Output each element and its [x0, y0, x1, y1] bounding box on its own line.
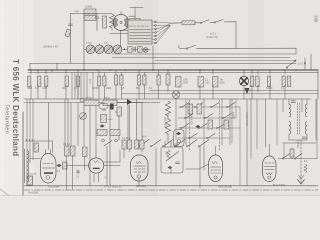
switch lever [294, 154, 302, 160]
wire [179, 46, 180, 49]
tube EM11 magic eye [113, 12, 129, 31]
IF transformer Tr2 coil b [289, 122, 291, 135]
wire bus G [150, 90, 318, 92]
resistor R31 [135, 140, 139, 149]
resistor R26 [65, 146, 70, 156]
coil L4 small [304, 165, 307, 173]
resistor R28 [83, 147, 88, 157]
wire [170, 22, 182, 24]
wire column [246, 99, 248, 186]
capacitor block C20 [99, 104, 108, 110]
wire feeds [49, 99, 266, 188]
network box N1 [161, 147, 183, 173]
resistor R36 [101, 115, 114, 123]
wire [176, 99, 230, 145]
wire [109, 106, 111, 141]
wire [134, 8, 136, 21]
wire bus H [122, 93, 318, 95]
resistor R7 [138, 47, 142, 53]
resistor R2 [103, 16, 107, 28]
switch shaft dashed 2 [219, 100, 221, 150]
wire [129, 15, 135, 17]
wire [132, 102, 143, 104]
resistor R33 [208, 120, 213, 129]
connector K3 [196, 125, 201, 128]
node dots on bus [30, 69, 297, 71]
wire [127, 105, 129, 140]
wire [283, 143, 285, 159]
resistor R38 [110, 130, 120, 136]
right bottom chain [292, 140, 305, 184]
scan edge bottom [0, 195, 320, 196]
variable capacitor CV4 [113, 45, 122, 54]
resistor R3 zigzag [110, 14, 115, 30]
resistor R35 small box [27, 176, 33, 185]
node [115, 139, 118, 142]
capacitor C1 [95, 14, 99, 31]
wires IF [289, 99, 307, 148]
resistor R25 [34, 143, 39, 152]
wire [167, 115, 169, 119]
wire [83, 14, 85, 70]
wire [99, 43, 101, 46]
connector K1 [57, 164, 62, 167]
resistor R34 [224, 120, 229, 129]
coil L1 [165, 101, 170, 116]
lamp LP1 [143, 48, 148, 53]
element X1 [239, 76, 248, 85]
resistor R29 [122, 140, 126, 149]
wires [124, 99, 142, 158]
wire comb [72, 72, 93, 99]
band switch cluster [178, 99, 240, 186]
wire gang row [84, 48, 150, 50]
switch lever [282, 154, 290, 160]
node circle [80, 98, 84, 102]
wire [117, 102, 127, 104]
connector K2 [100, 124, 105, 127]
coil L2 [165, 119, 170, 134]
wire IF link [283, 99, 316, 143]
capacitor C11 [302, 137, 307, 139]
core IF [298, 103, 300, 135]
resistor R24 [197, 104, 202, 114]
junction bar with arrows [25, 139, 53, 153]
lamp LP2 [172, 91, 180, 99]
tube V4 output [209, 146, 223, 182]
wire [138, 178, 140, 186]
variable capacitor CV3 [104, 45, 113, 54]
resistor bank row [28, 74, 291, 87]
node dots gang [94, 49, 125, 50]
variable capacitor CV1 [86, 45, 95, 54]
resistor R30 [128, 140, 132, 149]
wire [104, 161, 120, 163]
wire [155, 148, 157, 186]
switch row S4 [138, 140, 209, 147]
resistor R27 [71, 146, 76, 156]
switch S2 [180, 45, 296, 49]
oscillator can U2 [174, 130, 185, 147]
wire [276, 99, 278, 145]
wires [67, 156, 85, 190]
resistor R6 [128, 47, 133, 53]
diode D1 [127, 99, 132, 105]
chassis chain line [24, 189, 318, 191]
wire bus B [112, 57, 290, 59]
capacitor C10 [291, 101, 296, 103]
resistor R0 [65, 29, 71, 37]
resistor R23 [188, 104, 193, 114]
wire [70, 14, 72, 64]
wire [317, 70, 319, 99]
variable capacitor CV2 [95, 45, 104, 54]
transformer T1 taps [152, 21, 170, 44]
wire [235, 22, 237, 49]
wire bus B2 [155, 59, 296, 61]
left vertical wires [27, 70, 96, 186]
node [102, 139, 105, 142]
wire [121, 30, 128, 32]
IF transformer Tr3 coil a [305, 104, 307, 117]
switch lever [104, 141, 112, 147]
tube V5 [263, 144, 277, 182]
wire bus A [112, 53, 296, 55]
resistor R37 [97, 130, 107, 136]
wire [304, 58, 306, 70]
wire [104, 165, 120, 167]
resistor R1 [84, 5, 96, 15]
wire [250, 99, 252, 159]
node [304, 63, 305, 64]
resistor R22 [117, 107, 122, 116]
resistor R32 [290, 149, 294, 157]
capacitor C21 solid [110, 104, 114, 110]
diode D2 [245, 88, 250, 94]
transformer T1 [128, 20, 152, 44]
wire column [231, 99, 233, 143]
capacitor C0 [68, 24, 72, 26]
wire [256, 99, 258, 149]
IF transformer Tr2 coil a [289, 104, 291, 117]
resistor R25b [63, 162, 68, 169]
resistor R1b [84, 16, 96, 21]
main supply bus [28, 69, 318, 71]
wire [110, 33, 128, 35]
resistor R20 [84, 97, 99, 106]
wire [119, 150, 121, 162]
resistor R31b [140, 140, 144, 149]
wire bus D short [56, 63, 58, 70]
wires bank to bus [31, 70, 285, 99]
wire [129, 18, 140, 20]
tube V1 EBF11 [41, 150, 57, 184]
margin rule [22, 112, 24, 196]
coil L3 [25, 149, 41, 183]
return bus [28, 71, 318, 73]
wire [167, 134, 169, 143]
wire [295, 48, 297, 54]
wire [310, 54, 312, 70]
bottom rail [24, 185, 318, 187]
labels under resistor bank [27, 80, 285, 93]
resistor R4 [182, 21, 195, 25]
wire bus F [24, 102, 160, 104]
wire [118, 116, 120, 140]
wire [29, 63, 31, 70]
wire [316, 99, 318, 159]
resistor R21 [103, 97, 117, 106]
wire [120, 31, 122, 47]
potentiometer P1 [80, 113, 87, 120]
switch S3 [286, 60, 296, 68]
wire bus E [24, 98, 311, 100]
capacitor C2 [134, 47, 136, 52]
capacitor C12 [77, 170, 80, 174]
IF transformer Tr3 coil b [305, 122, 307, 135]
wire bus C [30, 62, 296, 64]
tube V3 ECH11 [131, 155, 149, 181]
wire [139, 19, 141, 21]
wire bus R [278, 158, 317, 160]
tube V2 rectifier [89, 158, 104, 182]
switch S1 [195, 20, 236, 24]
wire [152, 46, 154, 70]
wire [130, 7, 143, 9]
switch shaft dashed [189, 100, 191, 150]
corner crease [0, 189, 9, 196]
wire [67, 165, 89, 167]
wire top feed [71, 13, 113, 15]
